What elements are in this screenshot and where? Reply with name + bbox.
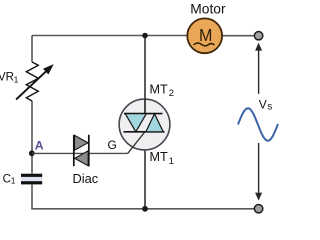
svg-text:s: s (267, 101, 272, 112)
svg-text:VR: VR (0, 71, 14, 83)
wire left rail middle (VR1 to capacitor) (31, 101, 33, 174)
svg-text:Motor: Motor (190, 2, 226, 17)
svg-text:Diac: Diac (73, 171, 99, 186)
wire node A to diac and gate horizontal (32, 152, 128, 154)
svg-text:V: V (259, 98, 267, 112)
wire left rail lower (capacitor to bottom) (31, 184, 33, 208)
junction dot top rail (142, 33, 148, 39)
triac left triangle (125, 114, 146, 132)
svg-text:C: C (3, 173, 11, 185)
svg-text:M: M (199, 25, 212, 45)
resistor VR1 (variable) (26, 62, 38, 101)
svg-text:MT: MT (150, 150, 168, 164)
svg-text:1: 1 (11, 176, 16, 186)
motor M1 (187, 18, 222, 53)
wire triac branch MT1 (triac to bottom rail) (144, 132, 146, 209)
triac top bar (124, 113, 163, 115)
wire motor to top terminal (222, 35, 255, 37)
wire triac branch MT2 (top rail to triac) (144, 36, 146, 114)
terminal top (254, 32, 262, 40)
arrow up to top terminal (255, 43, 262, 94)
triac bottom bar (124, 131, 165, 133)
svg-text:G: G (108, 138, 117, 152)
triac U1 body circle (119, 99, 170, 150)
svg-text:MT: MT (150, 82, 168, 96)
svg-text:1: 1 (14, 74, 19, 84)
node A junction dot (29, 150, 35, 156)
capacitor C1 (21, 174, 42, 185)
svg-text:1: 1 (169, 156, 174, 167)
arrow down to bottom terminal (255, 143, 262, 201)
source Vs sine wave (238, 108, 278, 140)
junction dot bottom rail (142, 206, 148, 212)
wire MT2 inside circle (144, 99, 146, 113)
wire top rail (33, 35, 188, 37)
svg-text:A: A (35, 138, 44, 152)
triac right triangle (146, 114, 163, 132)
wire gate diagonal into triac (128, 132, 145, 153)
terminal bottom (254, 205, 262, 213)
diac (74, 135, 89, 166)
svg-text:2: 2 (169, 88, 174, 99)
arrow of VR1 (16, 64, 54, 99)
wire bottom rail (31, 208, 256, 210)
wire left rail upper (32, 36, 33, 63)
